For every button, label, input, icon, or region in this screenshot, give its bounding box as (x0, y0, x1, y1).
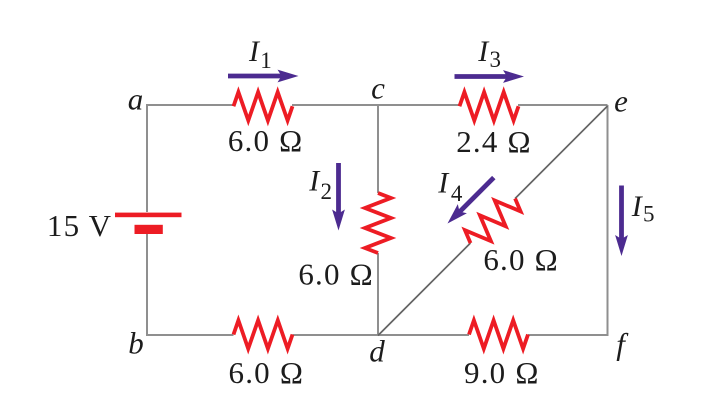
svg-text:9.0 Ω: 9.0 Ω (464, 355, 540, 390)
resistor R4 6.0 ohm diagonal (465, 199, 521, 244)
current arrow I5 (619, 186, 624, 241)
svg-text:1: 1 (260, 48, 272, 73)
svg-text:6.0 Ω: 6.0 Ω (229, 355, 305, 390)
battery 15V long plate (115, 213, 182, 218)
svg-text:6.0 Ω: 6.0 Ω (298, 257, 374, 292)
svg-text:3: 3 (490, 47, 502, 72)
svg-text:f: f (616, 327, 629, 362)
resistor R1 6.0 ohm top-left (234, 92, 293, 120)
svg-text:5: 5 (643, 202, 655, 227)
resistor R2 6.0 ohm middle vertical (365, 193, 391, 253)
battery 15V short plate (135, 225, 163, 234)
svg-text:e: e (614, 84, 628, 119)
current arrow I2 (336, 163, 341, 214)
svg-text:b: b (128, 326, 144, 361)
wire top a-c-e (147, 104, 608, 106)
svg-text:15 V: 15 V (47, 208, 112, 243)
current arrow I4 (456, 176, 495, 215)
svg-text:I: I (631, 190, 644, 223)
resistor bottom-left 6.0 ohm (234, 320, 293, 348)
svg-text:2: 2 (321, 179, 333, 204)
wire left a-b with battery gap (146, 104, 148, 336)
svg-text:I: I (437, 167, 450, 200)
svg-text:I: I (477, 35, 490, 68)
wire middle c-d (377, 105, 379, 335)
svg-text:4: 4 (451, 181, 463, 206)
svg-text:a: a (128, 81, 144, 116)
wire bottom b-d-f (146, 334, 609, 336)
svg-text:d: d (369, 334, 385, 369)
svg-text:2.4 Ω: 2.4 Ω (456, 124, 532, 159)
svg-text:I: I (248, 35, 261, 68)
current arrow I1 (228, 74, 282, 79)
resistor bottom-right 9.0 ohm (469, 320, 528, 348)
current arrow I3 (455, 74, 508, 79)
svg-text:c: c (371, 71, 385, 106)
wire right e-f (607, 105, 609, 336)
svg-text:6.0 Ω: 6.0 Ω (483, 242, 559, 277)
svg-text:I: I (308, 165, 321, 198)
resistor R3 2.4 ohm top-right (460, 92, 519, 120)
svg-text:6.0 Ω: 6.0 Ω (228, 123, 304, 158)
wire diagonal d-e (378, 106, 608, 336)
